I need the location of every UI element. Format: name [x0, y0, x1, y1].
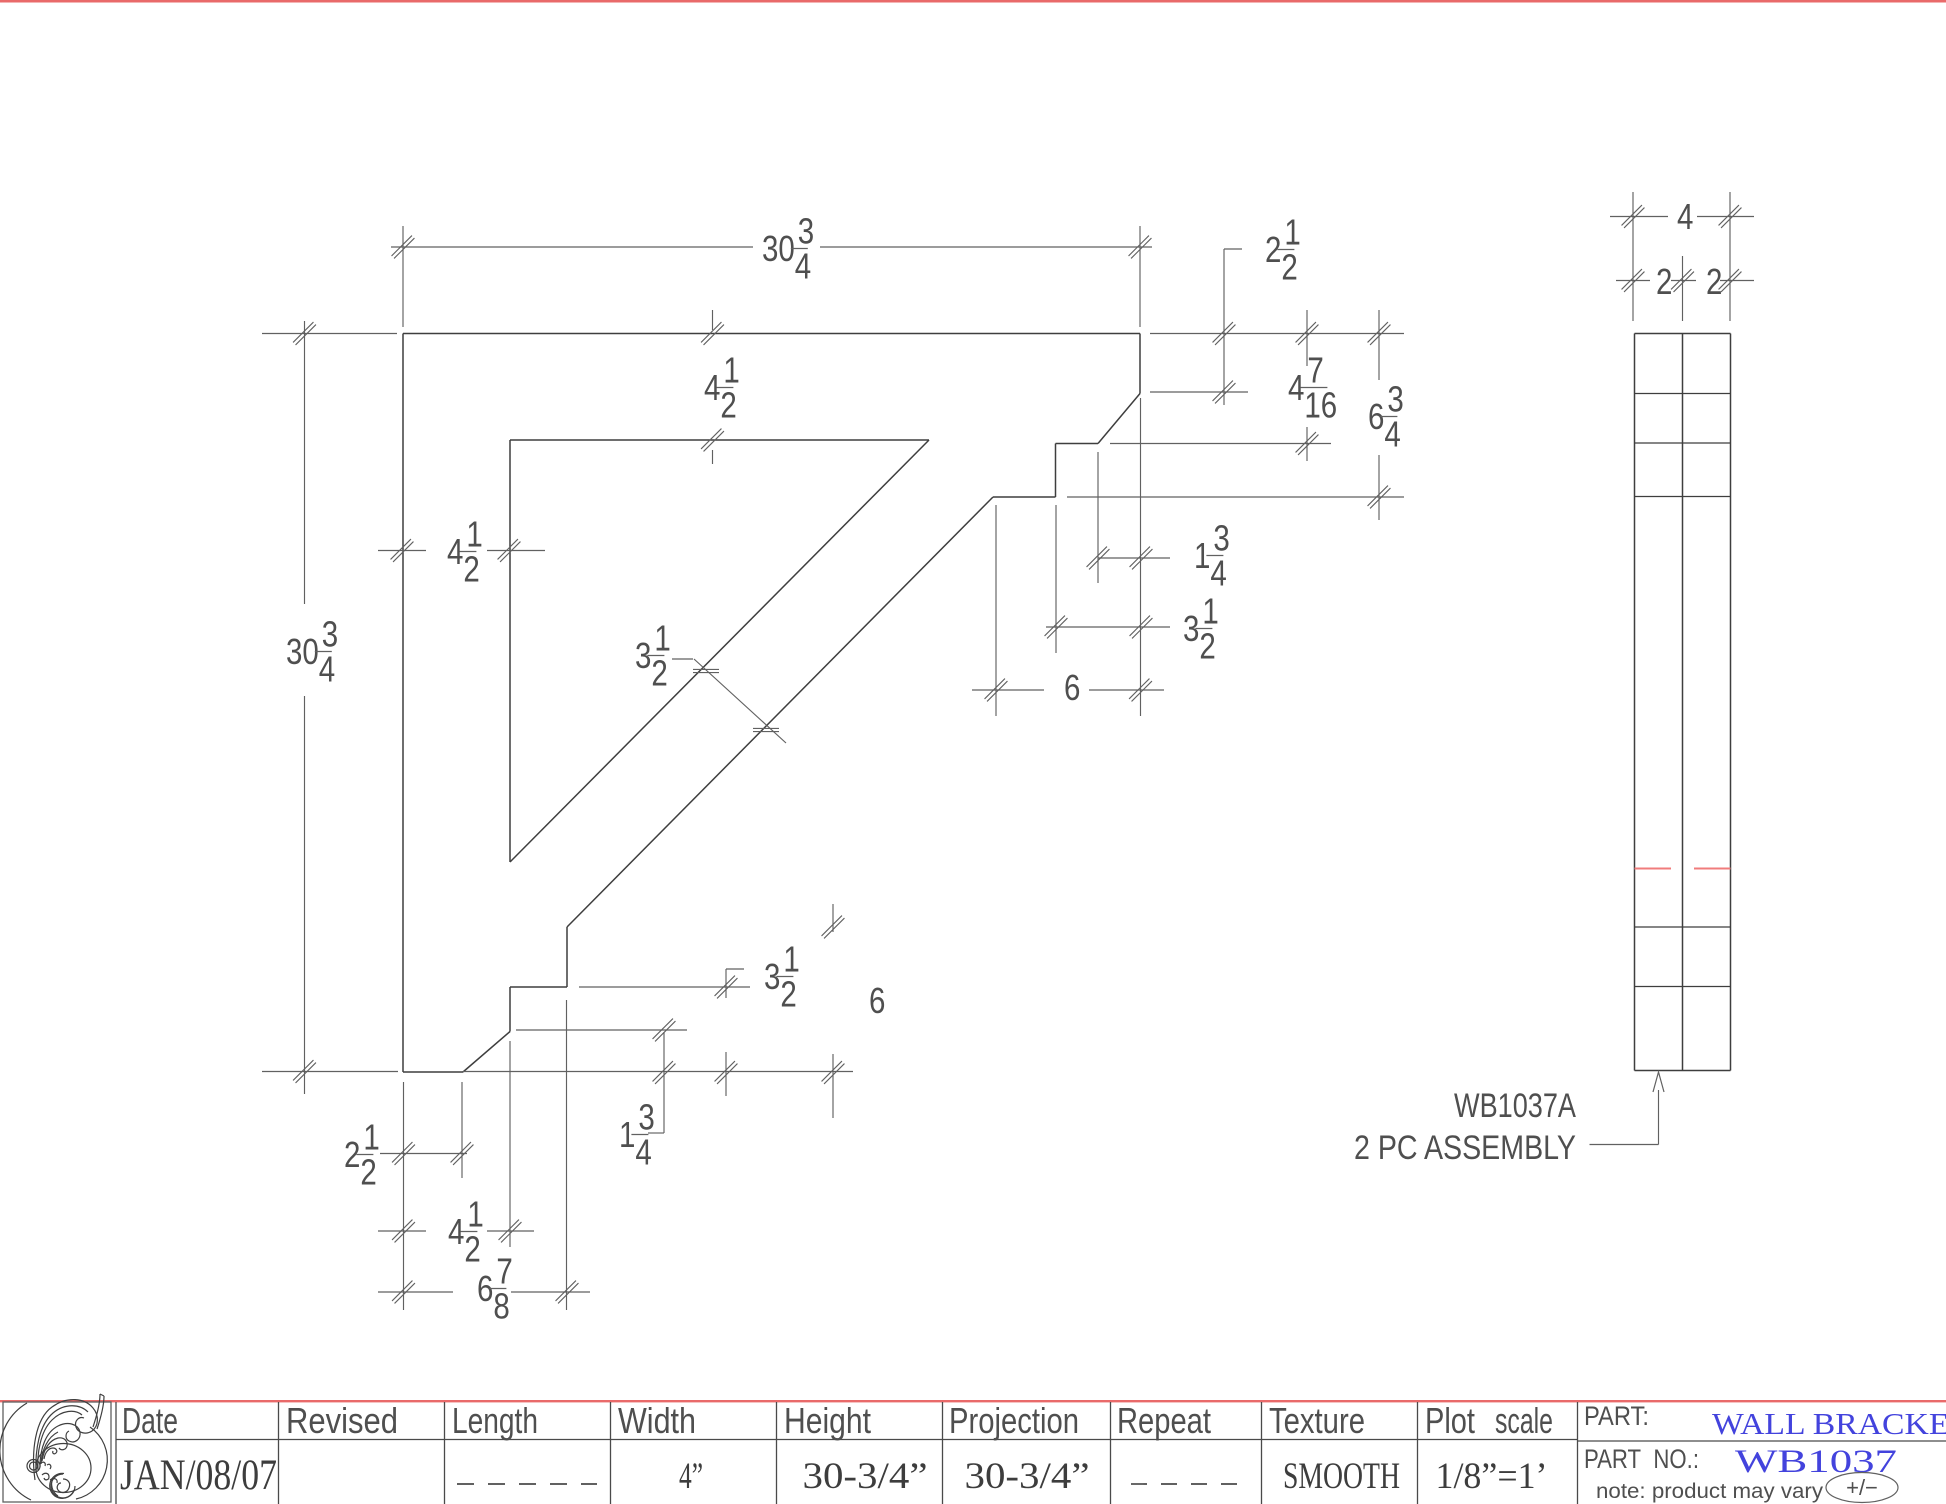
svg-text:WB1037A: WB1037A — [1454, 1087, 1576, 1125]
svg-text:6: 6 — [869, 980, 885, 1020]
title block grid — [116, 1402, 1946, 1504]
baseline extension — [463, 1071, 853, 1073]
svg-text:+/−: +/− — [1846, 1475, 1878, 1500]
leader arrow to side view — [1590, 1072, 1665, 1145]
dimension 3-1/2 right — [1045, 505, 1219, 666]
svg-text:30: 30 — [286, 631, 319, 671]
dimension 30-3/4 vertical left — [262, 321, 398, 1094]
label WB1037A 2 PC ASSEMBLY — [1354, 1087, 1576, 1167]
dimension 30-3/4 horizontal top — [391, 211, 1152, 327]
svg-text:4: 4 — [635, 1132, 651, 1172]
svg-text:4: 4 — [1677, 196, 1693, 236]
dimension 2-1/2 bottom — [344, 1117, 473, 1192]
dimension 2 and 2 side halves — [1616, 256, 1754, 321]
svg-text:16: 16 — [1304, 385, 1337, 425]
svg-text:2: 2 — [1656, 261, 1672, 301]
logo ornament — [0, 1394, 107, 1500]
bracket outer profile (front view) — [403, 334, 1140, 1073]
svg-text:2: 2 — [780, 974, 796, 1014]
red centerline side view — [1635, 868, 1731, 870]
svg-text:WALL BRACKET: WALL BRACKET — [1712, 1406, 1946, 1441]
svg-text:4: 4 — [1384, 414, 1400, 454]
svg-text:note: product may vary: note: product may vary — [1596, 1480, 1824, 1503]
svg-text:8: 8 — [493, 1286, 509, 1326]
title block values — [120, 1452, 1548, 1499]
dimension 3-1/2 foot — [579, 939, 800, 1096]
svg-text:2: 2 — [720, 385, 736, 425]
inner triangular cutout — [510, 440, 929, 862]
dimension 4-1/2 bottom — [378, 1194, 534, 1269]
svg-text:1/8”=1’: 1/8”=1’ — [1436, 1456, 1548, 1497]
dimension 4 side width — [1610, 192, 1754, 321]
svg-text:JAN/08/07: JAN/08/07 — [120, 1452, 277, 1499]
extension lines right of arm — [1067, 334, 1404, 498]
svg-text:Texture: Texture — [1269, 1400, 1365, 1441]
svg-text:2: 2 — [464, 1229, 480, 1269]
note product may vary — [1596, 1473, 1898, 1504]
logo box — [3, 1402, 111, 1502]
extension lines bottom left — [404, 1000, 567, 1310]
svg-text:2 PC ASSEMBLY: 2 PC ASSEMBLY — [1354, 1129, 1576, 1167]
svg-text:4: 4 — [795, 246, 811, 286]
dimension 2-1/2 right end — [1213, 212, 1301, 405]
red page top border — [0, 0, 1946, 3]
svg-text:4”: 4” — [679, 1456, 703, 1497]
svg-text:Plot: Plot — [1425, 1400, 1475, 1441]
svg-text:PART:: PART: — [1584, 1401, 1649, 1431]
svg-text:Date: Date — [122, 1400, 178, 1441]
dimension 6-7/8 bottom — [378, 1251, 590, 1326]
svg-text:4: 4 — [1210, 553, 1226, 593]
title block headers — [122, 1400, 1699, 1474]
side view 2pc assembly section — [1635, 334, 1731, 1071]
svg-text:Repeat: Repeat — [1117, 1400, 1211, 1441]
dimension 6 right — [972, 398, 1164, 716]
dimension 6-3/4 — [1368, 310, 1404, 520]
svg-text:2: 2 — [463, 549, 479, 589]
svg-text:2: 2 — [360, 1152, 376, 1192]
dimension 3-1/2 brace width — [635, 618, 786, 743]
dimension 1-3/4 right — [1087, 452, 1230, 593]
svg-text:30-3/4”: 30-3/4” — [965, 1456, 1090, 1497]
svg-text:Length: Length — [452, 1400, 538, 1441]
svg-text:6: 6 — [1064, 667, 1080, 707]
dimension 4-1/2 arm thickness — [701, 310, 740, 464]
svg-text:30: 30 — [762, 228, 795, 268]
dimension 4-1/2 wall leg thickness — [378, 514, 545, 589]
svg-text:30-3/4”: 30-3/4” — [803, 1456, 928, 1497]
part name and number — [1712, 1406, 1946, 1480]
svg-text:SMOOTH: SMOOTH — [1283, 1456, 1400, 1497]
svg-text:Projection: Projection — [949, 1400, 1079, 1441]
svg-text:2: 2 — [651, 653, 667, 693]
svg-text:Height: Height — [784, 1400, 871, 1441]
svg-text:2: 2 — [1281, 247, 1297, 287]
title block top red line — [0, 1400, 1946, 1402]
svg-text:scale: scale — [1495, 1400, 1553, 1441]
svg-text:Revised: Revised — [286, 1400, 398, 1441]
dimension 4-7/16 — [1288, 310, 1337, 461]
dimension 6 foot — [822, 904, 886, 1118]
svg-text:2: 2 — [1199, 626, 1215, 666]
svg-text:4: 4 — [319, 649, 335, 689]
svg-text:2: 2 — [1706, 261, 1722, 301]
svg-text:PART NO.:: PART NO.: — [1584, 1444, 1699, 1474]
dimension 1-3/4 foot — [516, 1019, 687, 1173]
svg-text:Width: Width — [618, 1400, 696, 1441]
